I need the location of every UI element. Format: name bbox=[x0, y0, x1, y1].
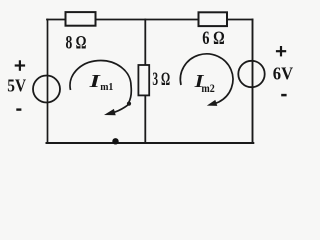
svg-text:5V: 5V bbox=[7, 76, 26, 96]
resistor R3 body (3 ohm) bbox=[138, 65, 149, 95]
label V2 minus sign bbox=[281, 94, 286, 97]
svg-text:6V: 6V bbox=[273, 64, 294, 84]
svg-text:6 Ω: 6 Ω bbox=[202, 28, 224, 49]
svg-text:3 Ω: 3 Ω bbox=[152, 69, 170, 90]
svg-text:m2: m2 bbox=[201, 83, 215, 95]
svg-text:8 Ω: 8 Ω bbox=[66, 32, 87, 53]
wire middle branch bbox=[144, 20, 146, 144]
wire left branch bbox=[47, 20, 49, 144]
wire right branch bbox=[252, 20, 254, 144]
label V1 minus sign bbox=[16, 108, 21, 110]
voltage source V1 circle (5V) bbox=[33, 76, 60, 103]
label V1 plus sign bbox=[15, 60, 25, 71]
mesh current Im1 arrow (clockwise arc with curl and arrowhead) bbox=[70, 60, 131, 115]
label Im2 mesh current 2 bbox=[193, 73, 204, 92]
wire top (node between sources via R1,R2) bbox=[47, 19, 253, 21]
node dot on bottom wire bbox=[112, 138, 118, 144]
resistor R1 body (8 ohm) bbox=[66, 12, 96, 26]
mesh current Im2 arrow (clockwise arc with arrowhead) bbox=[180, 54, 233, 106]
resistor R2 body (6 ohm) bbox=[199, 12, 228, 26]
svg-text:m1: m1 bbox=[100, 81, 113, 93]
label Im1 mesh current 1 bbox=[88, 72, 101, 92]
label V2 plus sign bbox=[276, 46, 286, 56]
wire bottom (reference node) bbox=[47, 142, 254, 144]
voltage source V2 circle (6V) bbox=[238, 61, 264, 87]
